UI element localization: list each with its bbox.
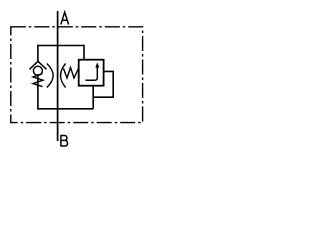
orifice restriction on main line	[47, 64, 53, 88]
pilot line	[93, 71, 113, 97]
wire check valve upper lead	[37, 45, 39, 62]
wire top branch	[37, 45, 84, 47]
wire bottom branch	[37, 108, 93, 110]
wire relief valve top lead	[83, 45, 85, 60]
enclosure (dash-dot component boundary)	[11, 27, 143, 123]
relief valve body	[79, 60, 104, 86]
wire check valve lower lead	[37, 74, 39, 110]
wire main line A-B	[57, 11, 59, 141]
check valve seat	[30, 61, 47, 69]
node A	[61, 12, 69, 24]
relief valve flow path arrow	[86, 67, 98, 81]
node B	[60, 136, 67, 147]
check valve spring	[33, 74, 43, 87]
check valve ball	[33, 66, 42, 75]
relief valve spring	[64, 68, 79, 79]
wire drain lead	[92, 86, 94, 109]
